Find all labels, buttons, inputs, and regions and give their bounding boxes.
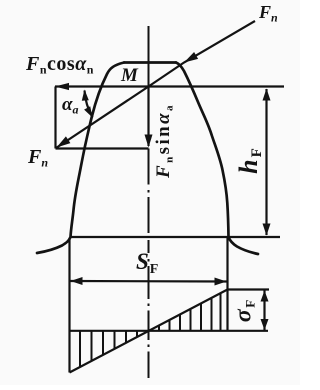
svg-text:M: M xyxy=(120,65,139,86)
svg-text:Fnsinαa: Fnsinαa xyxy=(153,103,176,179)
svg-text:Fncosαn: Fncosαn xyxy=(25,53,94,77)
